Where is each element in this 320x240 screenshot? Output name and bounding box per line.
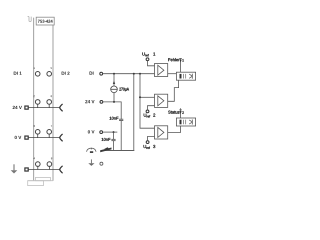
node 24V bbox=[100, 101, 103, 104]
label Status 2 bbox=[168, 111, 179, 114]
bus interface box 2 bbox=[176, 118, 195, 126]
label DI 1 bbox=[14, 72, 22, 75]
wire U1 out bbox=[168, 73, 177, 75]
module clip top-left bbox=[28, 17, 32, 22]
wire 24V middle bbox=[103, 102, 121, 119]
current source 270uA bbox=[113, 74, 115, 86]
wire earth row bbox=[29, 169, 60, 171]
fork earth bbox=[60, 166, 62, 173]
bus wire 1 bbox=[133, 74, 135, 151]
label Fehler 1 bbox=[168, 58, 179, 61]
node DI bbox=[100, 72, 103, 75]
module foot / DIN rail profile bbox=[28, 177, 53, 185]
terminal 5 bbox=[47, 72, 52, 77]
tag earth bbox=[25, 168, 28, 171]
label DI 2 bbox=[62, 72, 70, 75]
wire U3 out bbox=[168, 126, 181, 132]
earth arrow left bbox=[13, 164, 15, 170]
staircase wire U2 out to bus box1 bbox=[168, 80, 179, 101]
terminal 1 bbox=[35, 72, 40, 77]
node Uref1 bbox=[146, 58, 149, 61]
terminal 4 bbox=[36, 162, 41, 167]
wire 24V row bbox=[29, 107, 60, 109]
FE symbol bbox=[90, 148, 92, 150]
wire 0V row bbox=[29, 137, 60, 139]
bus wire 2 bbox=[140, 74, 155, 129]
label 0 V middle bbox=[88, 130, 95, 133]
bus interface box 1 bbox=[176, 72, 195, 80]
tag 24V bbox=[25, 106, 28, 109]
op-amp U1 bbox=[155, 64, 168, 77]
label 24 V middle bbox=[85, 100, 94, 103]
node Uref2 bbox=[146, 110, 149, 113]
small gray arrow bbox=[90, 159, 92, 163]
wire DI row bbox=[103, 73, 155, 75]
op-amp U3 bbox=[155, 126, 168, 139]
fork 24V bbox=[60, 104, 62, 111]
small node circle bbox=[100, 162, 103, 165]
signal arrow Fehler bbox=[180, 58, 182, 72]
terminal 8 bbox=[47, 162, 52, 167]
module left edge bbox=[33, 18, 35, 181]
label Uref 3 bbox=[144, 145, 156, 149]
capacitor C1 10nF bbox=[119, 118, 123, 120]
label Uref 2 bbox=[144, 114, 155, 118]
rail contact blade bbox=[100, 148, 111, 153]
terminal 2 bbox=[35, 100, 40, 105]
fork 0V bbox=[60, 134, 62, 141]
tag 0V bbox=[25, 136, 28, 139]
label box 753-424 bbox=[36, 17, 54, 25]
label 24 V left bbox=[13, 106, 22, 109]
value 270uA bbox=[119, 88, 129, 92]
wire Uref1 bbox=[148, 61, 155, 66]
wire 0V middle bbox=[103, 131, 118, 133]
node Uref3 bbox=[146, 141, 149, 144]
signal arrow Status bbox=[180, 108, 182, 118]
label DI middle bbox=[90, 72, 94, 75]
wire Uref3 bbox=[148, 136, 155, 140]
junction dots DI wire bbox=[113, 73, 115, 75]
capacitor C2 10nF bbox=[113, 132, 115, 139]
wire Uref2 bbox=[148, 106, 155, 110]
terminal 7 bbox=[47, 130, 52, 135]
label 0 V left bbox=[15, 136, 22, 139]
op-amp U2 bbox=[155, 94, 168, 107]
module right edge bbox=[52, 25, 54, 181]
terminal 6 bbox=[47, 100, 52, 105]
label Uref 1 bbox=[142, 52, 155, 56]
terminal 3 bbox=[35, 130, 40, 135]
node 0V bbox=[100, 131, 103, 134]
ground rail bbox=[104, 149, 134, 151]
